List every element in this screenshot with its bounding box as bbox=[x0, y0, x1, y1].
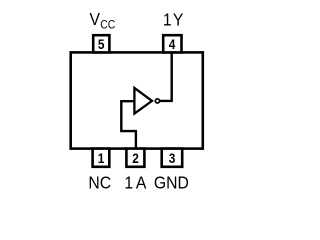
inverter bubble bbox=[155, 99, 159, 103]
svg-text:1A: 1A bbox=[124, 173, 149, 193]
pin 3 box bbox=[162, 149, 183, 167]
pin 4 number bbox=[169, 36, 176, 52]
package body U1 bbox=[71, 52, 203, 148]
inverter gate triangle bbox=[134, 88, 152, 114]
label 1A (pin 2) bbox=[124, 173, 149, 193]
pin 2 box bbox=[126, 149, 144, 167]
wire net 1A: pin 2 to inverter input bbox=[121, 101, 136, 149]
svg-text:4: 4 bbox=[169, 36, 176, 52]
svg-text:2: 2 bbox=[132, 150, 139, 166]
label 1Y (pin 4) bbox=[163, 10, 185, 30]
pin 2 number bbox=[132, 150, 139, 166]
svg-text:1: 1 bbox=[98, 150, 105, 166]
pin 5 box bbox=[93, 35, 109, 52]
label VCC (pin 5) bbox=[89, 9, 100, 29]
pin 1 box bbox=[93, 149, 110, 167]
pin 1 number bbox=[98, 150, 105, 166]
svg-text:GND: GND bbox=[154, 173, 189, 193]
label NC (pin 1) bbox=[88, 173, 111, 193]
svg-text:3: 3 bbox=[169, 150, 176, 166]
wire net 1Y: inverter output to pin 4 bbox=[160, 52, 172, 101]
svg-text:V: V bbox=[89, 9, 100, 29]
svg-text:CC: CC bbox=[100, 19, 115, 32]
pin 5 number bbox=[98, 36, 105, 52]
svg-text:1Y: 1Y bbox=[163, 10, 185, 30]
label GND (pin 3) bbox=[154, 173, 189, 193]
pin 4 box bbox=[163, 35, 181, 52]
svg-text:NC: NC bbox=[88, 173, 111, 193]
pin 3 number bbox=[169, 150, 176, 166]
svg-text:5: 5 bbox=[98, 36, 105, 52]
